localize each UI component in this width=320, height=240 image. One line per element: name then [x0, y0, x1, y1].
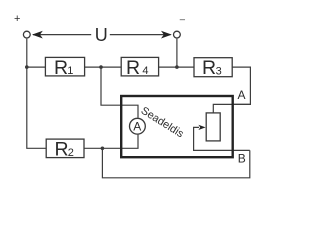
- svg-text:R: R: [54, 57, 68, 79]
- svg-text:1: 1: [67, 65, 73, 77]
- ammeter A: [130, 118, 146, 134]
- resistor R4: [121, 57, 158, 79]
- junction node at left vertical / R1 wire: [25, 65, 29, 69]
- svg-text:R: R: [55, 139, 69, 161]
- svg-text:B: B: [238, 152, 246, 166]
- wiper arrowhead of rheostat: [198, 125, 205, 130]
- wire ammeter bottom lead to R2 wire: [84, 135, 138, 149]
- resistor R3: [194, 57, 232, 79]
- wire left vertical from + terminal: [27, 39, 46, 149]
- wire U line right segment: [110, 34, 171, 36]
- wire right terminal drop to R4-R3 node: [176, 39, 178, 68]
- device box Seadeldis: [121, 96, 233, 157]
- wire R4 to R3: [159, 66, 194, 68]
- svg-text:4: 4: [142, 65, 148, 77]
- terminal circle - (right): [174, 31, 181, 38]
- svg-text:R: R: [202, 57, 216, 79]
- wire rheostat wiper loop to B terminal: [194, 127, 250, 150]
- wire ammeter branch from R1-R4 node: [101, 67, 138, 118]
- junction node at R2 wire / bottom rail: [101, 147, 105, 151]
- svg-text:A: A: [238, 88, 246, 102]
- terminal circle + (left): [23, 31, 30, 38]
- resistor R1: [45, 57, 84, 79]
- wire node to R1: [27, 66, 46, 68]
- svg-text:A: A: [133, 120, 141, 134]
- wire R1 to R4: [85, 66, 122, 68]
- wire R3 to terminal A: [232, 67, 250, 104]
- svg-text:+: +: [14, 13, 20, 25]
- resistor R2: [46, 139, 84, 161]
- wire U line left segment: [33, 34, 91, 36]
- wire bottom rail from R2 node to terminal B: [102, 148, 249, 178]
- junction node at R1-R4 wire / ammeter branch: [99, 65, 103, 69]
- junction node at R4-R3 wire / right terminal drop: [175, 65, 179, 69]
- svg-text:–: –: [180, 14, 186, 25]
- rheostat (potentiometer): [206, 113, 220, 141]
- arrowhead left of U measurement: [32, 31, 43, 39]
- svg-text:R: R: [126, 57, 140, 79]
- wire rheostat top lead to A terminal: [213, 104, 250, 113]
- svg-text:U: U: [95, 25, 108, 45]
- svg-text:2: 2: [68, 147, 74, 159]
- svg-text:3: 3: [216, 65, 222, 77]
- arrowhead right of U measurement: [161, 31, 172, 39]
